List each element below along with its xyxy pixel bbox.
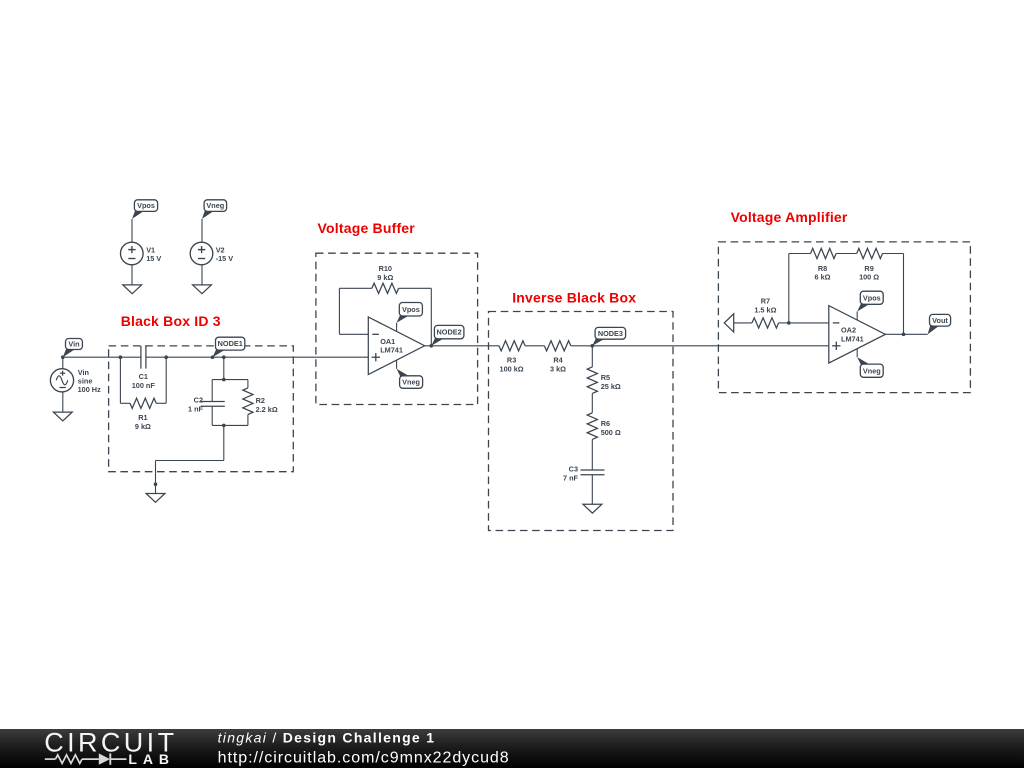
net flag NODE2	[431, 338, 445, 346]
svg-text:Vpos: Vpos	[137, 201, 155, 210]
resistor R10	[372, 283, 399, 293]
wire OA2 Vpos stub	[856, 312, 858, 321]
svg-text:Vneg: Vneg	[402, 378, 420, 387]
capacitor C2	[201, 401, 225, 403]
svg-text:Vneg: Vneg	[863, 366, 881, 375]
wire Vin source to ground	[62, 392, 64, 412]
wire OA1 Vpos stub	[396, 323, 398, 332]
node C1 right junction	[164, 355, 168, 359]
node parallel top	[222, 378, 226, 382]
svg-text:100 kΩ: 100 kΩ	[500, 365, 524, 374]
capacitor C1	[140, 346, 142, 369]
svg-text:R6: R6	[601, 419, 610, 428]
wire C3 to ground	[591, 475, 593, 505]
node ground (box1)	[154, 482, 158, 486]
sine source Vin	[50, 369, 73, 392]
net flag Vneg (V2)	[202, 210, 215, 219]
wire R7 to junction	[779, 322, 789, 324]
node NODE1 junction	[211, 355, 215, 359]
wire R8 to R9	[836, 253, 857, 255]
svg-text:C1: C1	[139, 372, 148, 381]
node R7/feedback junction	[787, 321, 791, 325]
wire OA1 output	[425, 345, 499, 347]
capacitor C3	[581, 469, 605, 471]
net flag Vout	[928, 325, 940, 334]
svg-text:NODE1: NODE1	[218, 339, 243, 348]
wire C2 bottom lead	[211, 406, 213, 425]
svg-text:OA2: OA2	[841, 326, 856, 335]
svg-text:100 nF: 100 nF	[132, 381, 156, 390]
svg-text:Vpos: Vpos	[863, 293, 881, 302]
svg-text:Vneg: Vneg	[206, 201, 224, 210]
svg-text:http://circuitlab.com/c9mnx22d: http://circuitlab.com/c9mnx22dycud8	[218, 749, 510, 766]
svg-text:C2: C2	[194, 396, 203, 405]
svg-text:Voltage Buffer: Voltage Buffer	[318, 220, 416, 236]
resistor R2	[243, 388, 253, 415]
wire OA1 inv input	[339, 333, 368, 335]
wire feedback left vertical (OA2)	[788, 254, 790, 323]
wire R5 to R6	[591, 393, 593, 412]
svg-text:NODE3: NODE3	[598, 329, 623, 338]
wire feedback top left lead	[339, 287, 372, 289]
node Vin junction	[61, 355, 65, 359]
resistor R3	[499, 341, 525, 351]
power flag Vpos (OA1)	[397, 315, 410, 323]
svg-text:100 Hz: 100 Hz	[78, 385, 101, 394]
svg-text:-15 V: -15 V	[216, 254, 234, 263]
ground (Vin)	[53, 412, 72, 421]
ground (V2)	[193, 285, 212, 294]
svg-text:100 Ω: 100 Ω	[859, 273, 879, 282]
svg-text:V1: V1	[146, 245, 155, 254]
node branch to C2/R2	[222, 355, 226, 359]
svg-text:C3: C3	[569, 465, 578, 474]
op-amp OA1 (LM741)	[368, 317, 424, 375]
wire parallel top bar	[212, 379, 248, 381]
wire junction to OA2 inv input	[789, 322, 829, 324]
wire R1 right lead	[156, 402, 166, 404]
wire R6 to C3	[591, 439, 593, 470]
wire NODE3 to OA2	[592, 345, 829, 347]
svg-text:Voltage Amplifier: Voltage Amplifier	[731, 209, 848, 225]
resistor R9	[857, 248, 883, 258]
svg-text:Vin: Vin	[68, 340, 79, 349]
wire feedback right vertical	[430, 288, 432, 346]
svg-text:R4: R4	[553, 356, 563, 365]
dashed box Inverse Black Box	[489, 312, 674, 531]
wire Vin down	[62, 357, 64, 369]
ground (Black Box ID 3)	[146, 494, 165, 503]
wire R3 to R4	[525, 345, 544, 347]
svg-text:Inverse Black Box: Inverse Black Box	[512, 289, 636, 305]
wire corner to ground drop	[156, 460, 224, 462]
node Vout junction	[902, 333, 906, 337]
resistor R4	[544, 341, 570, 351]
svg-text:V2: V2	[216, 245, 225, 254]
wire feedback right vertical (OA2)	[903, 254, 905, 335]
svg-text:LM741: LM741	[841, 335, 864, 344]
wire OA1 Vneg stub	[396, 360, 398, 368]
wire NODE3 down to R5	[591, 346, 593, 367]
svg-text:R1: R1	[138, 413, 147, 422]
wire feedback left vertical	[338, 288, 340, 334]
wire R1 left lead	[120, 402, 130, 404]
wire ground drop	[155, 461, 157, 485]
power flag Vpos (OA2)	[857, 303, 871, 311]
svg-text:R8: R8	[818, 264, 827, 273]
node parallel bottom	[222, 424, 226, 428]
svg-text:2.2 kΩ: 2.2 kΩ	[256, 405, 278, 414]
wire V2 flag to source	[201, 219, 203, 242]
svg-text:1 nF: 1 nF	[188, 405, 204, 414]
svg-text:R10: R10	[379, 264, 392, 273]
wire V1 to ground	[131, 265, 133, 285]
resistor R7	[752, 318, 779, 328]
voltage source V1	[121, 242, 144, 265]
svg-text:25 kΩ: 25 kΩ	[601, 382, 621, 391]
resistor R6	[587, 413, 597, 440]
wire R1 left vertical	[119, 357, 121, 403]
svg-text:9 kΩ: 9 kΩ	[135, 422, 151, 431]
dashed box Voltage Amplifier	[718, 242, 970, 393]
svg-text:R9: R9	[864, 264, 873, 273]
svg-text:R3: R3	[507, 356, 516, 365]
wire feedback top right lead	[399, 287, 432, 289]
node C1 left junction	[119, 355, 123, 359]
voltage source V2	[190, 242, 213, 265]
wire parallel bottom bar	[212, 424, 248, 426]
svg-text:LM741: LM741	[380, 346, 403, 355]
svg-text:LAB: LAB	[128, 751, 174, 767]
ground (V1)	[123, 285, 142, 294]
svg-text:500 Ω: 500 Ω	[601, 428, 621, 437]
net flag Vin	[63, 349, 76, 358]
svg-text:tingkai / Design Challenge 1: tingkai / Design Challenge 1	[218, 729, 436, 745]
svg-text:9 kΩ: 9 kΩ	[377, 273, 393, 282]
resistor R8	[811, 248, 837, 258]
ground (R7, rotated left)	[724, 314, 733, 332]
wire OA2 Vneg stub	[856, 349, 858, 357]
dashed box Black Box ID 3	[109, 346, 294, 472]
wire NODE1 to buffer	[213, 356, 369, 358]
svg-text:R5: R5	[601, 373, 610, 382]
ground (C3)	[583, 504, 602, 513]
op-amp OA2 (LM741)	[829, 306, 886, 364]
power flag Vneg (OA1)	[397, 369, 411, 377]
svg-text:3 kΩ: 3 kΩ	[550, 365, 566, 374]
wire OA2 output	[885, 333, 927, 335]
power flag Vneg (OA2)	[857, 357, 871, 365]
svg-text:R7: R7	[761, 297, 770, 306]
wire ground to R7	[734, 322, 752, 324]
svg-text:Vpos: Vpos	[402, 305, 420, 314]
net flag NODE3	[592, 338, 605, 346]
logo resistor-diode squiggle	[45, 758, 56, 760]
svg-text:Black Box ID 3: Black Box ID 3	[121, 313, 221, 329]
wire R2 bottom lead	[247, 415, 249, 426]
wire C1 to NODE1 junction	[146, 356, 213, 358]
svg-text:Vout: Vout	[932, 316, 948, 325]
resistor R5	[587, 367, 597, 394]
svg-text:15 V: 15 V	[146, 254, 161, 263]
wire to ground symbol	[155, 484, 157, 493]
dashed box Voltage Buffer	[316, 253, 478, 404]
svg-text:NODE2: NODE2	[437, 328, 462, 337]
wire C2 top lead	[211, 380, 213, 402]
svg-text:1.5 kΩ: 1.5 kΩ	[754, 306, 776, 315]
wire R9 to corner	[883, 253, 904, 255]
net flag NODE1	[213, 349, 227, 357]
net flag Vpos (V1)	[132, 210, 145, 219]
wire branch down to parallel pair	[223, 357, 225, 379]
wire R1 right vertical	[165, 357, 167, 403]
wire R2 top lead	[247, 380, 249, 388]
wire V1 flag to source	[131, 219, 133, 242]
wire V2 to ground	[201, 265, 203, 285]
node NODE3 junction	[591, 344, 595, 348]
svg-text:OA1: OA1	[380, 337, 395, 346]
node NODE2 junction	[430, 344, 434, 348]
resistor R1	[130, 398, 156, 408]
wire feedback to R8	[789, 253, 811, 255]
svg-text:R2: R2	[256, 396, 265, 405]
wire parallel to corner	[223, 425, 225, 460]
svg-text:6 kΩ: 6 kΩ	[815, 273, 831, 282]
svg-text:7 nF: 7 nF	[563, 473, 579, 482]
wire R4 to NODE3	[571, 345, 593, 347]
wire Vin to C1	[63, 356, 141, 358]
footer bar	[0, 729, 1024, 768]
